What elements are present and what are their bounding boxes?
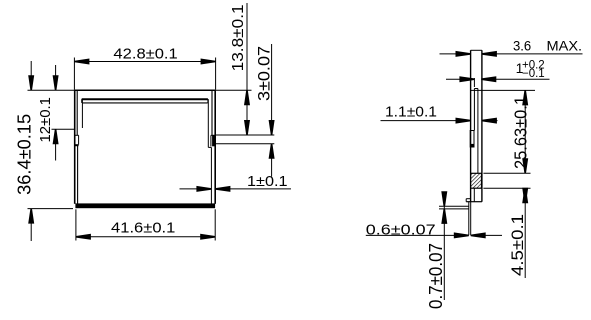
svg-text:42.8±0.1: 42.8±0.1 <box>113 46 177 63</box>
svg-text:41.6±0.1: 41.6±0.1 <box>111 219 175 236</box>
svg-text:1.1±0.1: 1.1±0.1 <box>385 104 437 121</box>
svg-text:3±0.07: 3±0.07 <box>255 46 273 101</box>
svg-text:0.6±0.07: 0.6±0.07 <box>366 221 436 238</box>
svg-text:12±0.1: 12±0.1 <box>37 97 54 143</box>
svg-text:4.5±0.1: 4.5±0.1 <box>509 214 527 276</box>
svg-text:0.7±0.07: 0.7±0.07 <box>425 243 446 309</box>
svg-text:25.63±0.1: 25.63±0.1 <box>510 96 530 169</box>
svg-text:13.8±0.1: 13.8±0.1 <box>230 4 247 71</box>
svg-text:36.4±0.15: 36.4±0.15 <box>14 114 35 195</box>
svg-text:MAX.: MAX. <box>547 37 583 53</box>
svg-text:3.6: 3.6 <box>513 37 531 53</box>
svg-text:1±0.1: 1±0.1 <box>247 173 288 190</box>
svg-text:−0.1: −0.1 <box>522 68 545 80</box>
